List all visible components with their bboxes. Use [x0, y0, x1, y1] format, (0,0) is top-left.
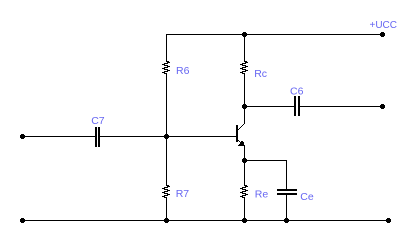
- svg-text:Ce: Ce: [300, 191, 314, 203]
- svg-text:Re: Re: [255, 189, 269, 201]
- svg-text:+UCC: +UCC: [370, 20, 398, 31]
- svg-text:C6: C6: [290, 85, 304, 97]
- svg-text:R7: R7: [176, 188, 190, 200]
- svg-text:Rc: Rc: [254, 68, 267, 80]
- svg-text:R6: R6: [176, 65, 190, 77]
- svg-text:C7: C7: [91, 115, 105, 127]
